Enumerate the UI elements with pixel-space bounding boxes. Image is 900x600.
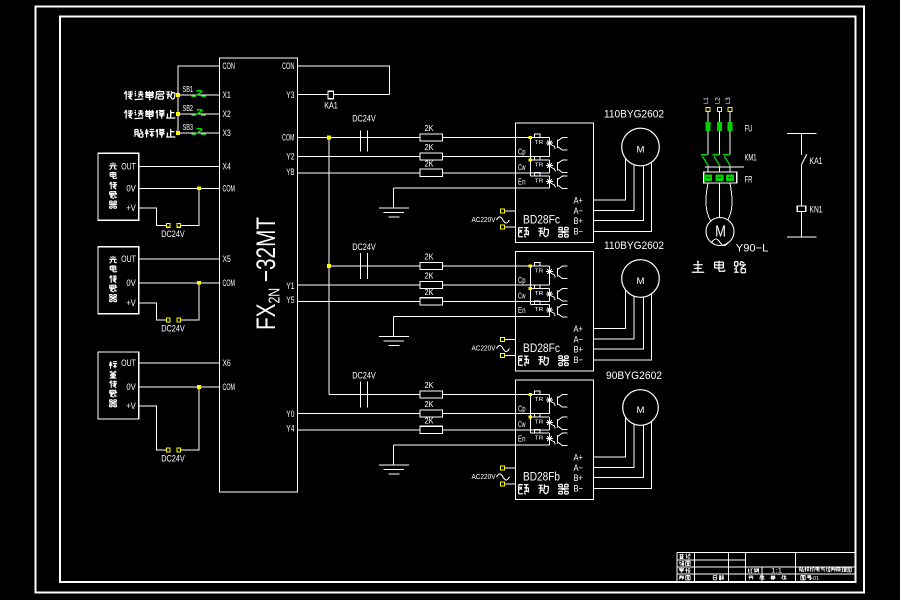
AC220V input terminals driver 1 bbox=[505, 210, 516, 212]
wire: bus to X3 bbox=[178, 132, 220, 134]
wire: DC24V supply to 0V node bbox=[181, 387, 199, 450]
svg-text:Y90−L: Y90−L bbox=[736, 243, 769, 255]
svg-text:2K: 2K bbox=[425, 399, 434, 409]
svg-text:TR: TR bbox=[535, 397, 544, 403]
svg-text:SB3: SB3 bbox=[183, 123, 194, 132]
stepper motor M3 90BYG2602 bbox=[623, 390, 659, 426]
svg-text:0V: 0V bbox=[126, 184, 136, 194]
wire: PLC pulse output to driver 1 bbox=[298, 156, 516, 158]
svg-text:2K: 2K bbox=[425, 123, 434, 133]
svg-text:FR: FR bbox=[745, 175, 753, 185]
node: 0V junction dot bbox=[197, 385, 201, 389]
node: bus junction dot section 1 bbox=[327, 136, 331, 140]
wires: driver 1 outputs to motor M1 bbox=[594, 147, 652, 231]
FR element phase 3 bbox=[726, 174, 734, 181]
resistor 2K section 3.2 bbox=[420, 410, 443, 417]
contactor linkage line bbox=[705, 166, 744, 168]
wire: PLC dir output to driver 1 bbox=[298, 172, 516, 174]
DC24V supply symbol section 1 bbox=[360, 131, 362, 152]
driver 1 output labels A+ A- B+ B- bbox=[574, 196, 584, 237]
terminal DC24V - bbox=[177, 223, 181, 227]
node junction dot row 1 bbox=[176, 93, 180, 97]
wire: CON left bus bbox=[178, 66, 220, 133]
AC220V input terminals driver 3 bbox=[505, 467, 516, 469]
terminal DC24V + bbox=[166, 318, 170, 322]
wire: 0V to PLC COM bbox=[139, 386, 220, 388]
relay coil KN1 bbox=[797, 206, 805, 212]
wires: driver 3 outputs to motor M3 bbox=[594, 408, 652, 489]
svg-text:COM: COM bbox=[223, 184, 236, 194]
svg-text:En: En bbox=[518, 305, 526, 315]
svg-text:+V: +V bbox=[126, 203, 136, 213]
driver 2 output labels A+ A- B+ B- bbox=[574, 324, 584, 365]
wire: 0V to PLC COM bbox=[139, 187, 220, 189]
svg-text:2K: 2K bbox=[425, 380, 434, 390]
svg-text:AC220V: AC220V bbox=[472, 215, 497, 224]
wire phase 2 upper bbox=[719, 112, 721, 123]
wire: bus to X2 bbox=[178, 113, 220, 115]
svg-text:OUT: OUT bbox=[121, 254, 136, 264]
driver 3 input labels Cp Cw En bbox=[518, 404, 526, 444]
DC24V supply symbol section 2 bbox=[360, 253, 362, 279]
motor Y90-L bbox=[706, 218, 734, 246]
svg-text:X5: X5 bbox=[223, 254, 231, 264]
svg-text:Y1: Y1 bbox=[286, 281, 294, 291]
svg-text:En: En bbox=[518, 434, 526, 444]
wire: +V to DC24V supply bbox=[139, 406, 167, 450]
svg-text:OUT: OUT bbox=[121, 358, 136, 368]
stepper motor M1 110BYG2602 bbox=[622, 128, 660, 166]
label 驱动器 bbox=[519, 356, 529, 366]
svg-text:AC220V: AC220V bbox=[472, 344, 497, 353]
ground symbol section 1 bbox=[379, 188, 409, 217]
wire: bus to X1 bbox=[178, 94, 220, 96]
svg-text:A+: A+ bbox=[574, 324, 584, 334]
title block bbox=[677, 553, 855, 582]
svg-text:X3: X3 bbox=[223, 128, 231, 138]
optocoupler internals driver 2 bbox=[516, 263, 568, 317]
thermal relay FR box bbox=[704, 172, 737, 183]
wire: PLC dir output to driver 3 bbox=[298, 429, 516, 431]
terminal DC24V + bbox=[166, 223, 170, 227]
PLC left pin labels CON X1 X2 X3 X4 COM X5 COM X6 COM bbox=[223, 61, 236, 392]
svg-text:TR: TR bbox=[535, 178, 544, 184]
svg-text:+V: +V bbox=[126, 298, 136, 308]
svg-text:BD28Fb: BD28Fb bbox=[523, 470, 560, 484]
resistor 2K section 3.1 bbox=[420, 391, 443, 398]
driver 1 input labels Cp Cw En bbox=[518, 147, 526, 187]
svg-text:TR: TR bbox=[535, 419, 544, 425]
terminal L2 bbox=[718, 108, 722, 112]
svg-text:A−: A− bbox=[574, 334, 584, 344]
svg-text:2K: 2K bbox=[425, 252, 434, 262]
resistor 2K section 1.2 bbox=[420, 153, 443, 160]
svg-text:X4: X4 bbox=[223, 162, 231, 172]
fuse FU phase 1 bbox=[706, 122, 711, 131]
svg-text:TR: TR bbox=[535, 307, 544, 313]
svg-text:En: En bbox=[518, 177, 526, 187]
svg-text:B−: B− bbox=[574, 484, 584, 494]
FR element phase 1 bbox=[704, 174, 712, 181]
stepper driver U3 BD28Fc bbox=[516, 252, 594, 372]
resistor 2K section 3.3 bbox=[420, 426, 443, 433]
svg-text:COM: COM bbox=[282, 133, 295, 143]
svg-text:110BYG2602: 110BYG2602 bbox=[604, 240, 664, 252]
wire: 0V to PLC COM bbox=[139, 282, 220, 284]
svg-text:M: M bbox=[637, 405, 645, 415]
svg-text:SB1: SB1 bbox=[183, 85, 194, 94]
svg-text:Y2: Y2 bbox=[286, 152, 294, 162]
svg-text:Cp: Cp bbox=[518, 147, 526, 157]
label 主电路 bbox=[692, 261, 704, 272]
resistor 2K section 1.1 bbox=[420, 134, 443, 141]
resistor 2K section 2.1 bbox=[420, 262, 443, 269]
driver 2 input labels Cp Cw En bbox=[518, 275, 526, 315]
resistor 2K section 2.2 bbox=[420, 281, 443, 288]
svg-text:DC24V: DC24V bbox=[161, 324, 185, 334]
stepper motor M2 110BYG2602 bbox=[622, 260, 660, 298]
svg-text:1:1: 1:1 bbox=[771, 569, 783, 575]
wire: CON right to KA1 loop bbox=[298, 66, 390, 95]
svg-text:A−: A− bbox=[574, 463, 584, 473]
wire phase 3 upper bbox=[729, 112, 731, 123]
svg-text:YB: YB bbox=[286, 167, 294, 177]
wire: driver 1 emitter rail to ground bbox=[394, 187, 516, 189]
svg-text:−01: −01 bbox=[810, 576, 819, 582]
stepper driver U4 BD28Fb bbox=[516, 380, 594, 500]
svg-text:TR: TR bbox=[535, 140, 544, 146]
resistor 2K section 2.3 bbox=[420, 298, 443, 305]
svg-text:DC24V: DC24V bbox=[352, 242, 376, 252]
svg-text:BD28Fc: BD28Fc bbox=[523, 341, 560, 355]
wire: PLC dir output to driver 2 bbox=[298, 300, 516, 302]
svg-text:2K: 2K bbox=[425, 158, 434, 168]
wire: driver 2 emitter rail to ground bbox=[394, 316, 516, 318]
svg-text:0V: 0V bbox=[126, 382, 136, 392]
wire: PLC pulse output to driver 2 bbox=[298, 284, 516, 286]
label 传送带停止 bbox=[124, 110, 133, 119]
node dots driver 3 bbox=[529, 393, 532, 396]
svg-text:TR: TR bbox=[535, 268, 544, 274]
contactor contact KM1 phase 3 bbox=[723, 154, 730, 156]
svg-text:M: M bbox=[715, 224, 726, 241]
terminal DC24V - bbox=[177, 318, 181, 322]
svg-text:X1: X1 bbox=[223, 90, 231, 100]
wire: PLC pulse output to driver 3 bbox=[298, 413, 516, 415]
fuse FU phase 3 bbox=[728, 122, 733, 131]
resistor 2K section 1.3 bbox=[420, 169, 443, 176]
wire: DC24V supply to 0V node bbox=[181, 283, 199, 320]
svg-text:Cw: Cw bbox=[518, 419, 526, 429]
svg-text:FU: FU bbox=[745, 124, 753, 134]
wire: OUT to PLC input bbox=[139, 165, 220, 167]
AC220V input terminals driver 2 bbox=[505, 339, 516, 341]
wire phase 1 fuse to contactor bbox=[707, 131, 709, 154]
wire: rail to KA1 contact bbox=[801, 134, 803, 155]
wire: bus to driver 2 bbox=[329, 265, 516, 267]
wire: +V to DC24V supply bbox=[139, 303, 167, 320]
svg-text:TR: TR bbox=[535, 435, 544, 441]
svg-text:Cp: Cp bbox=[518, 275, 526, 285]
svg-text:DC24V: DC24V bbox=[352, 371, 376, 381]
svg-text:2K: 2K bbox=[425, 287, 434, 297]
node: 0V junction dot bbox=[197, 186, 201, 190]
svg-text:KA1: KA1 bbox=[810, 156, 823, 166]
terminal L3 bbox=[728, 108, 732, 112]
svg-text:L3: L3 bbox=[726, 97, 732, 104]
optocoupler internals driver 1 bbox=[516, 134, 568, 188]
svg-text:TR: TR bbox=[535, 162, 544, 168]
svg-text:B+: B+ bbox=[574, 344, 584, 354]
svg-text:2K: 2K bbox=[425, 271, 434, 281]
node: bus junction dot section 2 bbox=[327, 264, 331, 268]
svg-text:Cw: Cw bbox=[518, 291, 526, 301]
svg-text:A+: A+ bbox=[574, 453, 584, 463]
svg-text:SB2: SB2 bbox=[183, 104, 194, 113]
svg-text:B+: B+ bbox=[574, 216, 584, 226]
svg-text:DC24V: DC24V bbox=[161, 454, 185, 464]
svg-text:COM: COM bbox=[223, 278, 236, 288]
wire: driver 3 emitter rail to ground bbox=[394, 444, 516, 446]
ground symbol section 2 bbox=[379, 317, 409, 346]
PLC right pin labels CON Y3 COM Y2 YB Y1 Y5 Y0 Y4 bbox=[282, 61, 295, 434]
svg-text:AC220V: AC220V bbox=[472, 472, 497, 481]
wire phase 1 upper bbox=[707, 112, 709, 123]
FR element phase 2 bbox=[715, 174, 723, 181]
terminal DC24V + bbox=[166, 448, 170, 452]
svg-text:A+: A+ bbox=[574, 196, 584, 206]
wire phase 2 contactor to FR bbox=[719, 166, 721, 172]
svg-text:CON: CON bbox=[282, 61, 295, 71]
terminal DC24V - bbox=[177, 448, 181, 452]
wires: driver 2 outputs to motor M2 bbox=[594, 279, 652, 360]
svg-text:X2: X2 bbox=[223, 109, 231, 119]
contactor contact KM1 phase 1 bbox=[701, 154, 708, 156]
wire: COM vertical bus bbox=[328, 138, 330, 395]
node dots driver 1 bbox=[529, 136, 532, 139]
pushbutton switch SB1 bbox=[191, 91, 206, 96]
wire: Y3 to KA1 coil bbox=[298, 94, 390, 96]
svg-text:DC24V: DC24V bbox=[161, 229, 185, 239]
relay coil KA1 bbox=[328, 91, 334, 99]
sensor box B3 (标签传感器) bbox=[98, 352, 139, 419]
wire phase 3 fuse to contactor bbox=[729, 131, 731, 154]
ground symbol section 3 bbox=[379, 445, 409, 474]
svg-text:0V: 0V bbox=[126, 278, 136, 288]
relay contact KA1 bbox=[802, 154, 807, 164]
wire phase 2 fuse to contactor bbox=[719, 131, 721, 154]
PLC FX2N-32MT box U1 bbox=[220, 58, 298, 492]
svg-text:OUT: OUT bbox=[121, 162, 136, 172]
DC24V supply symbol section 3 bbox=[360, 382, 362, 408]
wire: OUT to PLC input bbox=[139, 362, 220, 364]
svg-text:90BYG2602: 90BYG2602 bbox=[606, 370, 662, 382]
svg-text:Cw: Cw bbox=[518, 162, 526, 172]
svg-text:KA1: KA1 bbox=[324, 101, 338, 111]
wire: PLC COM to driver 1 (section bus tap) bbox=[298, 137, 516, 139]
svg-text:B−: B− bbox=[574, 355, 584, 365]
wire: DC24V supply to 0V node bbox=[181, 188, 199, 225]
optocoupler internals driver 3 bbox=[516, 391, 568, 445]
svg-text:110BYG2602: 110BYG2602 bbox=[604, 109, 664, 121]
contactor contact KM1 phase 2 bbox=[713, 154, 720, 156]
svg-text:KN1: KN1 bbox=[810, 205, 823, 215]
svg-text:COM: COM bbox=[223, 382, 236, 392]
wire phase 3 contactor to FR bbox=[729, 166, 731, 172]
svg-text:M: M bbox=[637, 276, 645, 286]
sensor box B1 (光电传感器) bbox=[98, 153, 139, 220]
svg-text:X6: X6 bbox=[223, 358, 231, 368]
svg-text:DC24V: DC24V bbox=[352, 114, 376, 124]
svg-text:B+: B+ bbox=[574, 473, 584, 483]
wires FR to motor bbox=[706, 183, 711, 221]
control branch: bottom rail bbox=[787, 236, 817, 238]
svg-text:B−: B− bbox=[574, 227, 584, 237]
svg-text:Y4: Y4 bbox=[286, 424, 294, 434]
svg-text:FX2N −32MT: FX2N −32MT bbox=[251, 217, 284, 330]
label 贴标停止 bbox=[135, 129, 144, 137]
wire phase 1 contactor to FR bbox=[707, 166, 709, 172]
svg-text:TR: TR bbox=[535, 291, 544, 297]
fuse FU phase 2 bbox=[717, 122, 722, 131]
svg-text:Y3: Y3 bbox=[286, 90, 294, 100]
terminal L1 bbox=[706, 108, 710, 112]
label 驱动器 bbox=[519, 228, 529, 238]
pushbutton switch SB2 bbox=[191, 110, 206, 115]
wire: bus to driver 3 bbox=[329, 394, 516, 396]
driver 3 output labels A+ A- B+ B- bbox=[574, 453, 584, 494]
wire: KN1 to bottom rail bbox=[801, 212, 803, 238]
node junction dot row 2 bbox=[176, 112, 180, 116]
svg-text:BD28Fc: BD28Fc bbox=[523, 213, 560, 227]
label 驱动器 bbox=[519, 485, 529, 495]
label 传送带启动 bbox=[124, 91, 133, 100]
control branch: top rail bbox=[787, 133, 817, 135]
svg-text:+V: +V bbox=[126, 401, 136, 411]
svg-text:KM1: KM1 bbox=[745, 153, 757, 163]
wire: KA1 to KN1 bbox=[801, 165, 803, 206]
svg-text:2K: 2K bbox=[425, 142, 434, 152]
svg-text:CON: CON bbox=[223, 61, 236, 71]
node junction dot row 3 bbox=[176, 131, 180, 135]
sensor box B2 (光电传感器) bbox=[98, 247, 139, 314]
svg-text:L1: L1 bbox=[704, 97, 710, 104]
stepper driver U2 BD28Fc bbox=[516, 123, 594, 243]
svg-text:A−: A− bbox=[574, 206, 584, 216]
svg-text:L2: L2 bbox=[716, 97, 722, 104]
wire: OUT to PLC input bbox=[139, 258, 220, 260]
svg-text:2K: 2K bbox=[425, 415, 434, 425]
svg-text:M: M bbox=[637, 144, 645, 154]
node: 0V junction dot bbox=[197, 281, 201, 285]
wire: +V to DC24V supply bbox=[139, 208, 167, 225]
svg-text:Cp: Cp bbox=[518, 404, 526, 414]
svg-text:Y0: Y0 bbox=[286, 409, 294, 419]
pushbutton switch SB3 bbox=[191, 129, 206, 134]
svg-text:Y5: Y5 bbox=[286, 295, 294, 305]
node dots driver 2 bbox=[529, 264, 532, 267]
